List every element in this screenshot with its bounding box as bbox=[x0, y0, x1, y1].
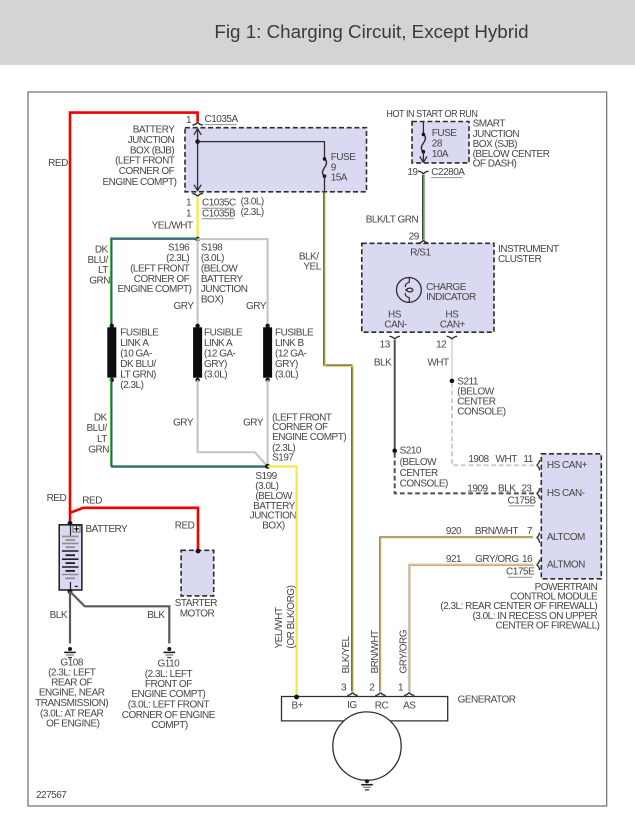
svg-text:12: 12 bbox=[436, 339, 447, 350]
svg-text:STARTER MOTOR: STARTER MOTOR bbox=[175, 598, 220, 619]
wire DK BLU/LT GRN splice to fusible link A bbox=[111, 238, 199, 326]
svg-text:GRY: GRY bbox=[174, 301, 195, 312]
svg-text:GRY: GRY bbox=[243, 418, 264, 429]
connector cluster pin 12 bbox=[436, 336, 457, 350]
wire BJB to fuse 9 bbox=[198, 142, 325, 159]
svg-text:BLK: BLK bbox=[374, 358, 392, 369]
svg-text:BATTERY: BATTERY bbox=[86, 524, 129, 535]
wire fuse 28 output with arrow bbox=[420, 152, 427, 163]
wire BLK battery to G110 bbox=[70, 592, 169, 644]
generator body circle bbox=[333, 712, 401, 780]
wire SJB internal feed bbox=[422, 122, 424, 135]
connector generator AS bbox=[404, 693, 414, 696]
fusible link A 10GA (2.3L) bbox=[107, 324, 116, 383]
svg-text:C1035B: C1035B bbox=[202, 208, 236, 219]
svg-text:1909: 1909 bbox=[467, 483, 488, 494]
svg-text:920: 920 bbox=[446, 526, 462, 537]
wire BLK/YEL fuse 9 to generator IG bbox=[324, 191, 353, 692]
fuse 28 10A bbox=[421, 133, 425, 154]
node splice S211 bbox=[450, 379, 455, 384]
svg-text:11: 11 bbox=[523, 454, 533, 465]
svg-text:ALTCOM: ALTCOM bbox=[547, 532, 585, 543]
fusible link B (3.0L) bbox=[263, 324, 272, 383]
connector cluster pin 13 bbox=[380, 336, 400, 350]
svg-text:BLK: BLK bbox=[498, 483, 516, 494]
svg-text:ALTMON: ALTMON bbox=[547, 559, 585, 570]
wire BLK pin13 to S210 bbox=[394, 340, 396, 451]
ground G110 bbox=[164, 647, 176, 658]
connector PCM HS CAN+ bbox=[537, 460, 540, 470]
svg-text:13: 13 bbox=[380, 339, 391, 350]
svg-text:BRN/WHT: BRN/WHT bbox=[370, 630, 381, 674]
wire WHT dashed S211 to PCM HS CAN+ bbox=[452, 383, 534, 465]
wire GRY splice to fusible link A 12GA bbox=[197, 239, 199, 325]
labels 920 BRN/WHT 7 bbox=[446, 526, 533, 537]
svg-text:WHT: WHT bbox=[427, 358, 449, 369]
wire RED starter branch bbox=[70, 508, 198, 551]
svg-text:RED: RED bbox=[48, 158, 68, 169]
svg-text:1908: 1908 bbox=[468, 454, 489, 465]
node battery negative bbox=[68, 589, 73, 594]
node generator B+ stud bbox=[294, 695, 299, 700]
svg-text:RED: RED bbox=[47, 493, 67, 504]
wire RED battery feed (C1035A to battery) bbox=[70, 113, 198, 523]
svg-text:(2.3L): (2.3L) bbox=[241, 207, 264, 218]
svg-text:RED: RED bbox=[82, 496, 102, 507]
starter motor bbox=[181, 550, 214, 596]
connector C175E bbox=[506, 567, 535, 578]
header bar bbox=[0, 0, 635, 65]
wire GRY link A 12GA to splice bbox=[198, 380, 268, 466]
svg-text:921: 921 bbox=[446, 554, 462, 565]
connector PCM ALTCOM bbox=[537, 532, 540, 542]
node starter feed bbox=[196, 549, 201, 554]
ground G108 bbox=[64, 647, 76, 658]
connector PCM HS CAN- bbox=[537, 488, 540, 498]
node battery positive bbox=[68, 521, 73, 526]
wire YEL/WHT from C1035B to splice bbox=[196, 197, 198, 239]
svg-text:GRY: GRY bbox=[246, 301, 267, 312]
svg-text:YEL/WHT: YEL/WHT bbox=[274, 607, 285, 648]
wire GRY link B to splice bbox=[267, 380, 269, 466]
battery junction box BJB bbox=[185, 128, 367, 192]
svg-text:(OR BLK/ORG): (OR BLK/ORG) bbox=[285, 585, 296, 648]
wire BLK battery to G108 bbox=[69, 592, 71, 644]
node splice S197/S199 bbox=[265, 464, 270, 469]
svg-text:Fig 1: Charging Circuit, Excep: Fig 1: Charging Circuit, Except Hybrid bbox=[214, 21, 528, 42]
svg-text:227567: 227567 bbox=[36, 790, 67, 801]
fusible link A 12GA (3.0L) bbox=[193, 324, 202, 383]
svg-text:RC: RC bbox=[375, 700, 389, 711]
svg-text:23: 23 bbox=[521, 483, 532, 494]
svg-text:BRN/WHT: BRN/WHT bbox=[475, 526, 519, 537]
connector C2280A bbox=[407, 167, 465, 178]
svg-text:WHT: WHT bbox=[496, 454, 518, 465]
charge indicator lamp bbox=[397, 278, 422, 303]
svg-text:HS CAN+: HS CAN+ bbox=[547, 460, 588, 471]
instrument cluster box bbox=[362, 243, 494, 332]
svg-text:R/S1: R/S1 bbox=[410, 248, 431, 259]
connector C1035C / C1035B below BJB bbox=[186, 194, 264, 220]
labels 921 GRY/ORG 16 bbox=[446, 554, 533, 565]
labels 1908 WHT 11 bbox=[468, 454, 533, 465]
svg-text:HOT IN START OR RUN: HOT IN START OR RUN bbox=[386, 109, 477, 120]
svg-text:C175E: C175E bbox=[506, 567, 535, 578]
svg-text:C175B: C175B bbox=[508, 495, 537, 506]
svg-text:(3.0L): (3.0L) bbox=[241, 196, 264, 207]
connector cluster R/S1 entry bbox=[418, 240, 428, 243]
wire WHT pin12 to S211 bbox=[451, 340, 453, 381]
svg-text:YEL/WHT: YEL/WHT bbox=[152, 220, 193, 231]
battery bbox=[59, 525, 82, 590]
wire DK BLU/LT GRN link A to splice S197/S199 bbox=[111, 379, 269, 467]
connector C175B bbox=[508, 495, 537, 506]
wire GRY/ORG PCM ALTMON to generator AS bbox=[409, 564, 534, 692]
wire fuse 9 output inside BJB bbox=[324, 176, 326, 192]
svg-text:19: 19 bbox=[407, 167, 418, 178]
connector C1035A bbox=[186, 114, 239, 126]
svg-text:GENERATOR: GENERATOR bbox=[458, 695, 516, 706]
wire BLK dashed S210 to PCM HS CAN- bbox=[395, 453, 534, 493]
svg-text:BLK: BLK bbox=[50, 610, 68, 621]
svg-text:AS: AS bbox=[403, 700, 416, 711]
labels 1909 BLK 23 bbox=[467, 483, 532, 494]
svg-text:29: 29 bbox=[409, 231, 420, 242]
svg-text:GRY: GRY bbox=[173, 418, 194, 429]
wire BRN/WHT PCM ALTCOM to generator RC bbox=[380, 537, 534, 693]
node splice S210 bbox=[392, 448, 397, 453]
svg-text:HS CAN-: HS CAN- bbox=[547, 488, 585, 499]
svg-text:C1035A: C1035A bbox=[205, 114, 239, 125]
fuse 9 15A bbox=[322, 157, 326, 178]
svg-text:BLK/YEL: BLK/YEL bbox=[341, 635, 352, 673]
connector generator RC bbox=[375, 693, 385, 696]
BJB internal bus wire with arrows bbox=[194, 128, 201, 191]
svg-text:GRY/ORG: GRY/ORG bbox=[398, 629, 409, 673]
svg-text:BLK/LT GRN: BLK/LT GRN bbox=[366, 215, 419, 226]
generator terminal labels bbox=[291, 700, 416, 711]
generator box bbox=[282, 697, 448, 721]
wire YEL/WHT (OR BLK/ORG) splice to generator B+ bbox=[268, 466, 297, 696]
smart junction box SJB bbox=[412, 122, 469, 163]
connector generator IG bbox=[347, 693, 357, 696]
diagram frame border bbox=[28, 92, 607, 806]
svg-text:IG: IG bbox=[347, 700, 357, 711]
svg-text:C1035C: C1035C bbox=[202, 198, 236, 209]
svg-text:RED: RED bbox=[175, 521, 195, 532]
wire GRY splice to fusible link B bbox=[198, 239, 268, 325]
node BJB bus junction bbox=[195, 139, 200, 144]
svg-text:BLK: BLK bbox=[147, 610, 165, 621]
powertrain control module PCM bbox=[541, 454, 601, 579]
connector PCM ALTMON bbox=[537, 560, 540, 570]
node splice S196/S198 bbox=[195, 237, 200, 242]
svg-text:16: 16 bbox=[522, 554, 533, 565]
svg-text:C2280A: C2280A bbox=[431, 167, 465, 178]
ground generator case bbox=[361, 779, 373, 790]
svg-text:GRY/ORG: GRY/ORG bbox=[475, 554, 519, 565]
wire BLK/LT GRN SJB to instrument cluster bbox=[423, 175, 424, 240]
svg-text:B+: B+ bbox=[291, 700, 303, 711]
